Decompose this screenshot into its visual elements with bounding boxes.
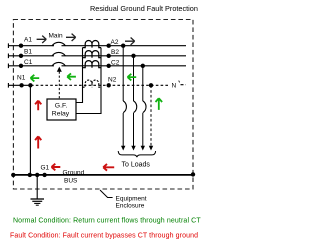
wire C1-C2 phase C horizontal bbox=[8, 65, 186, 67]
arrow green return up bbox=[156, 98, 163, 110]
svg-text:N: N bbox=[172, 82, 177, 89]
node B1 bbox=[19, 54, 23, 58]
CT secondary rail right bbox=[76, 48, 101, 114]
svg-text:B1: B1 bbox=[24, 49, 32, 56]
wire N1 neutral solid left segment bbox=[8, 84, 31, 86]
node N1 junction 2 (neutral-ground bond tap) bbox=[28, 83, 32, 87]
node G1 bbox=[42, 173, 46, 177]
svg-text:N2: N2 bbox=[108, 76, 117, 83]
svg-text:C2: C2 bbox=[111, 59, 120, 66]
svg-text:G.F.: G.F. bbox=[55, 102, 68, 109]
CT secondary rail left bbox=[76, 48, 83, 103]
node C1 bbox=[19, 64, 23, 68]
svg-text:Normal Condition: Return curre: Normal Condition: Return current flows t… bbox=[13, 218, 201, 225]
CT neutral (dashed) bbox=[83, 80, 102, 87]
svg-text:B2: B2 bbox=[111, 49, 119, 56]
node feeder tap C bbox=[141, 64, 145, 68]
node N2 bbox=[107, 83, 111, 87]
CT phase A (window CT loops) bbox=[83, 41, 102, 48]
node feeder tap B bbox=[131, 54, 135, 58]
node ground-electrode tap bbox=[35, 173, 39, 177]
wire feeder drop N dashed bbox=[150, 85, 152, 146]
arrow green neutral current 3 bbox=[128, 74, 137, 81]
arrow flow right after Main bbox=[66, 34, 76, 41]
arrow red fault up 2 bbox=[35, 136, 41, 148]
svg-text:Residual Ground Fault Protecti: Residual Ground Fault Protection bbox=[90, 4, 198, 13]
ground bus bbox=[13, 174, 193, 176]
svg-text:Main: Main bbox=[49, 33, 63, 40]
svg-text:A1: A1 bbox=[24, 37, 32, 44]
CT phase C bbox=[83, 61, 102, 68]
svg-text:Fault Condition: Fault current: Fault Condition: Fault current bypasses … bbox=[10, 233, 198, 240]
superscript tick after N bbox=[178, 81, 181, 83]
wire feeder drop C bbox=[142, 66, 144, 101]
breaker main pole B bbox=[52, 52, 66, 56]
arrow flow right after A2 bbox=[125, 38, 135, 45]
leader equipment enclosure bbox=[100, 190, 113, 198]
wire feeder drop A lower bbox=[122, 113, 124, 147]
node bond-bus bbox=[28, 173, 32, 177]
arrow red fault left at G1 bbox=[52, 164, 61, 171]
svg-text:BUS: BUS bbox=[64, 177, 78, 184]
wire relay trip dashed bbox=[58, 72, 60, 100]
breaker main pole A bbox=[52, 42, 66, 46]
node B2 bbox=[107, 54, 111, 58]
node C2 bbox=[107, 64, 111, 68]
arrowhead relay trip bbox=[57, 67, 62, 72]
node A2 bbox=[107, 44, 111, 48]
svg-text:Enclosure: Enclosure bbox=[116, 203, 145, 210]
wire N dashed stub right of label N bbox=[181, 84, 186, 86]
arrow green neutral current 1 bbox=[31, 75, 40, 82]
svg-text:N1: N1 bbox=[17, 75, 26, 82]
wire feeder drop A bbox=[122, 46, 124, 101]
svg-text:Relay: Relay bbox=[52, 110, 70, 117]
arrowhead load N bbox=[149, 146, 153, 151]
breaker feeder C bbox=[143, 101, 146, 113]
wire N neutral dashed segment bbox=[31, 84, 169, 86]
ground electrode stem bbox=[36, 175, 38, 199]
svg-text:Ground: Ground bbox=[63, 169, 85, 176]
wire feeder drop B lower bbox=[133, 113, 135, 147]
svg-text:C1: C1 bbox=[24, 59, 33, 66]
wire neutral-ground bond bbox=[29, 85, 31, 175]
brace To Loads bbox=[118, 151, 155, 157]
node bus-enclosure right bbox=[191, 172, 195, 176]
arrow green neutral current 2 bbox=[67, 73, 76, 80]
wire source cut ticks at left ends bbox=[7, 43, 9, 87]
arrow red fault left at bus right bbox=[103, 164, 114, 171]
G.F. relay box bbox=[47, 99, 76, 120]
wire feeder drop C lower bbox=[142, 113, 144, 147]
wire A1-A2 phase A horizontal bbox=[8, 43, 186, 87]
ground symbol bbox=[31, 199, 45, 205]
arrow red fault up 1 bbox=[35, 101, 41, 111]
arrowhead load A bbox=[121, 146, 125, 151]
breaker feeder B bbox=[134, 101, 137, 113]
wire B1-B2 phase B horizontal bbox=[8, 55, 186, 57]
svg-text:To Loads: To Loads bbox=[122, 161, 151, 168]
wire feeder drop B bbox=[133, 56, 135, 101]
equipment enclosure dashed border bbox=[13, 20, 193, 190]
arrowhead load B bbox=[131, 146, 135, 151]
breaker main pole C bbox=[52, 62, 66, 66]
node bus-enclosure left bbox=[11, 173, 15, 177]
svg-text:G1: G1 bbox=[41, 164, 50, 171]
node feeder tap N bbox=[149, 83, 153, 87]
breaker feeder A bbox=[123, 101, 126, 113]
CT phase B bbox=[83, 51, 102, 58]
node N1 junction 1 bbox=[19, 83, 23, 87]
node A1 bbox=[19, 44, 23, 48]
node feeder tap A bbox=[121, 44, 125, 48]
svg-text:Equipment: Equipment bbox=[116, 195, 147, 202]
arrowhead load C bbox=[141, 146, 145, 151]
svg-text:A2: A2 bbox=[111, 39, 119, 46]
arrow flow right before Main bbox=[37, 36, 47, 43]
